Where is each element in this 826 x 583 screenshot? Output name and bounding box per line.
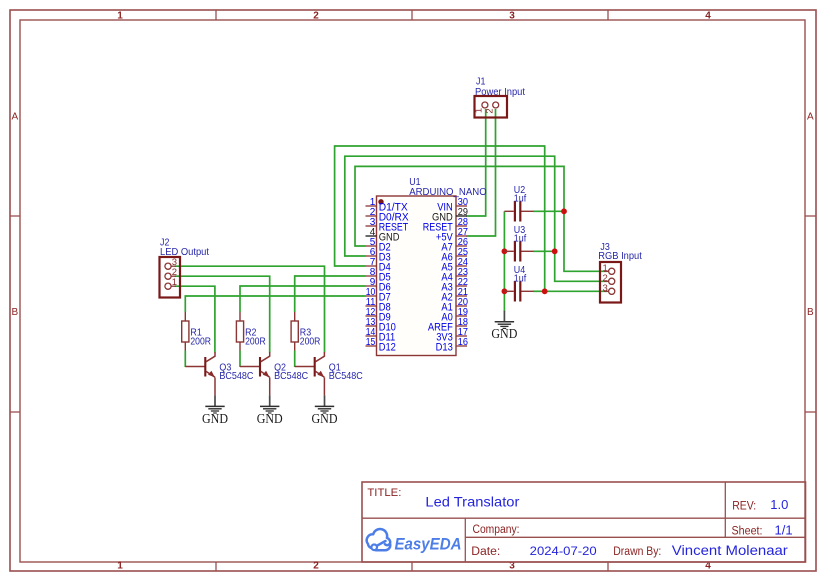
J2 pin 2 lead <box>168 275 176 277</box>
connector J2 body <box>160 257 181 298</box>
J2 pin 2 circle <box>165 273 171 279</box>
J2 pin 1 lead <box>168 285 176 287</box>
U1 left pin 14 stub <box>366 335 377 337</box>
wire R3 bottom to Q1 base <box>294 351 296 368</box>
svg-text:GND: GND <box>257 412 283 427</box>
U1 right pin 30 stub <box>456 205 467 207</box>
svg-text:BC548C: BC548C <box>274 370 308 382</box>
J3 pin 1 lead <box>604 270 612 272</box>
U1 left pin 1 stub <box>366 205 377 207</box>
wire U2 right to net D2 junction <box>533 210 564 212</box>
svg-text:1: 1 <box>117 560 123 571</box>
U1 right pin 29 stub <box>456 215 467 217</box>
EasyEDA logo <box>367 529 462 554</box>
wire D2 net U1 pin5 to U2/J3 pin1 <box>355 166 608 271</box>
svg-text:B: B <box>11 307 18 318</box>
wire D7 net U1 pin10 to R1 top <box>185 296 365 312</box>
svg-text:GND: GND <box>202 412 228 427</box>
svg-text:BC548C: BC548C <box>329 370 363 382</box>
wire J2 pin2 to Q2 collector <box>175 276 270 352</box>
svg-text:Date:: Date: <box>471 546 500 558</box>
U1 left pin 8 stub <box>366 275 377 277</box>
U1 left pin 6 stub <box>366 255 377 257</box>
svg-text:2: 2 <box>313 560 319 571</box>
svg-text:B: B <box>807 307 814 318</box>
ground below Q2 <box>257 395 283 426</box>
svg-text:D12: D12 <box>379 341 396 353</box>
svg-text:1uf: 1uf <box>514 232 526 244</box>
wire D6 net U1 pin9 to R2 top <box>240 286 366 312</box>
J3 pin 1 circle <box>609 268 615 274</box>
svg-text:D13: D13 <box>436 341 453 353</box>
svg-text:200R: 200R <box>245 335 266 347</box>
svg-text:2: 2 <box>313 10 319 21</box>
capacitor U3 <box>504 241 533 261</box>
svg-text:200R: 200R <box>300 335 321 347</box>
J1 pin 2 circle <box>493 102 499 108</box>
svg-text:Led Translator: Led Translator <box>425 494 519 510</box>
wire D5 net U1 pin8 to R3 top <box>295 276 366 312</box>
U1 left pin 4 stub <box>366 235 377 237</box>
U1 right pin 16 stub <box>456 345 467 347</box>
wire capacitor left bus to GND <box>503 211 505 311</box>
wire J2 pin3 to Q1 collector <box>175 266 325 352</box>
transistor Q1 <box>295 352 325 395</box>
U1 left pin 10 stub <box>366 295 377 297</box>
U1 right pin 26 stub <box>456 245 467 247</box>
svg-text:2024-07-20: 2024-07-20 <box>530 544 597 558</box>
svg-text:1.0: 1.0 <box>770 497 788 512</box>
U1 left pin 12 stub <box>366 315 377 317</box>
junction dot cap bus / U3 left <box>502 248 508 254</box>
J3 pin 3 lead <box>604 290 612 292</box>
junction dot net D3 / U3 <box>552 248 558 254</box>
J3 pin 2 circle <box>609 278 615 284</box>
J2 pin 1 circle <box>165 283 171 289</box>
J2 pin 3 circle <box>165 263 171 269</box>
svg-text:15: 15 <box>366 337 376 348</box>
svg-text:16: 16 <box>458 337 469 348</box>
svg-text:RGB Input: RGB Input <box>598 250 642 262</box>
U1 right pin 20 stub <box>456 305 467 307</box>
svg-text:1: 1 <box>474 108 485 113</box>
svg-text:TITLE:: TITLE: <box>367 487 401 499</box>
wire U4 right to net D4 junction <box>533 290 545 292</box>
wire D3 net U1 pin6 to U3/J3 pin2 <box>345 156 608 281</box>
svg-text:Vincent Molenaar: Vincent Molenaar <box>672 543 789 558</box>
svg-text:ARDUINO_NANO: ARDUINO_NANO <box>409 186 487 198</box>
wire +5V net J1 pin2 to U1 pin27 <box>467 109 496 236</box>
svg-text:3: 3 <box>509 10 515 21</box>
U1 pin-1 marker dot <box>378 199 383 204</box>
U1 left pin 13 stub <box>366 325 377 327</box>
wire GND net J1 pin1 to U1 pin29 <box>467 109 486 216</box>
U1 left pin 5 stub <box>366 245 377 247</box>
U1 right pin 25 stub <box>456 255 467 257</box>
J2 pin 3 lead <box>168 265 176 267</box>
wire J2 pin1 to Q3 collector <box>175 286 215 352</box>
svg-text:1/1: 1/1 <box>775 523 793 538</box>
U1 right pin 21 stub <box>456 295 467 297</box>
ground below Q3 <box>202 395 228 426</box>
transistor Q2 <box>240 352 270 395</box>
J3 pin 3 circle <box>609 288 615 294</box>
svg-text:1uf: 1uf <box>514 272 526 284</box>
svg-text:A: A <box>807 112 814 123</box>
svg-text:LED Output: LED Output <box>160 246 209 258</box>
U1 left pin 9 stub <box>366 285 377 287</box>
resistor R3 <box>291 312 298 351</box>
svg-text:Drawn By:: Drawn By: <box>613 546 661 558</box>
U1 right pin 19 stub <box>456 315 467 317</box>
J1 pin 1 circle <box>482 102 488 108</box>
svg-text:BC548C: BC548C <box>219 370 253 382</box>
svg-text:200R: 200R <box>190 335 211 347</box>
junction dot net D2 / U2 <box>561 208 567 214</box>
svg-text:A: A <box>11 112 18 123</box>
IC U1 ARDUINO_NANO body <box>377 196 457 356</box>
resistor R2 <box>236 312 243 351</box>
svg-text:1: 1 <box>172 277 177 288</box>
U1 left pin 15 stub <box>366 345 377 347</box>
svg-text:Power Input: Power Input <box>475 86 525 98</box>
ground below Q1 <box>312 395 338 426</box>
wire R1 bottom to Q3 base <box>184 351 186 368</box>
svg-text:REV:: REV: <box>732 501 756 513</box>
svg-text:GND: GND <box>491 327 517 342</box>
junction dot net D4 / U4 <box>542 288 548 294</box>
U1 left pin 3 stub <box>366 225 377 227</box>
U1 right pin 28 stub <box>456 225 467 227</box>
J3 pin 2 lead <box>604 280 612 282</box>
U1 right pin 22 stub <box>456 285 467 287</box>
junction dot cap bus / U4 left <box>502 288 508 294</box>
U1 left pin 11 stub <box>366 305 377 307</box>
U1 right pin 24 stub <box>456 265 467 267</box>
capacitor U4 <box>504 281 533 301</box>
svg-text:2: 2 <box>484 108 495 113</box>
svg-text:1: 1 <box>117 10 123 21</box>
connector J3 body <box>600 262 621 303</box>
svg-text:Company:: Company: <box>473 524 520 536</box>
svg-text:EasyEDA: EasyEDA <box>395 535 462 554</box>
wire R2 bottom to Q2 base <box>239 351 241 368</box>
svg-text:1uf: 1uf <box>514 192 526 204</box>
title block frame <box>362 482 806 562</box>
U1 left pin 2 stub <box>366 215 377 217</box>
U1 left pin 7 stub <box>366 265 377 267</box>
wire D4 net U1 pin7 to U4/J3 pin3 <box>335 146 608 291</box>
capacitor U2 <box>504 201 533 221</box>
U1 right pin 27 stub <box>456 235 467 237</box>
ground below capacitors <box>491 311 517 342</box>
U1 right pin 23 stub <box>456 275 467 277</box>
transistor Q3 <box>185 352 215 395</box>
svg-text:3: 3 <box>603 283 608 294</box>
wire U3 right to net D3 junction <box>533 250 555 252</box>
svg-text:GND: GND <box>312 412 338 427</box>
U1 right pin 18 stub <box>456 325 467 327</box>
svg-text:4: 4 <box>705 10 711 21</box>
svg-text:Sheet:: Sheet: <box>732 526 763 538</box>
U1 right pin 17 stub <box>456 335 467 337</box>
connector J1 body <box>475 96 508 118</box>
resistor R1 <box>182 312 189 351</box>
